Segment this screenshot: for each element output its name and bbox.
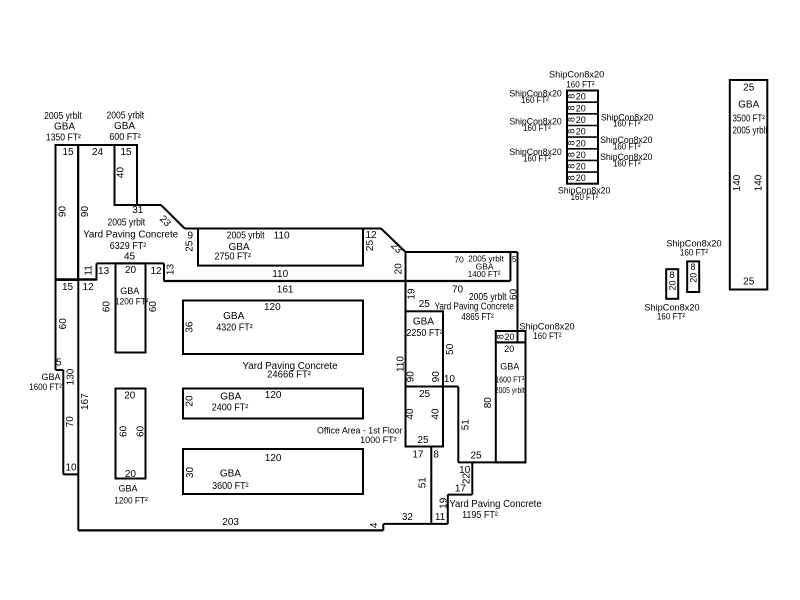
yard 6329 bottom line y263.4 <box>97 262 165 264</box>
vertical x458.3 (51) <box>457 387 459 463</box>
svg-text:1200 FT²: 1200 FT² <box>115 296 149 306</box>
svg-text:19: 19 <box>406 288 417 300</box>
vertical container 1 <box>666 269 678 299</box>
svg-text:110: 110 <box>274 231 290 242</box>
svg-text:4865 FT²: 4865 FT² <box>461 311 493 322</box>
svg-text:80: 80 <box>483 397 494 409</box>
svg-text:31: 31 <box>132 205 144 216</box>
big yard label <box>242 361 338 381</box>
big yard bottom line y530.4 <box>78 529 383 531</box>
building GBA 2250 outline <box>406 311 444 446</box>
ShipCon stack labels right <box>600 112 653 168</box>
svg-text:25: 25 <box>184 240 195 252</box>
ShipCon label mid right <box>519 321 574 341</box>
svg-text:30: 30 <box>185 467 196 479</box>
svg-text:160 FT²: 160 FT² <box>613 141 641 152</box>
svg-text:20: 20 <box>185 395 196 407</box>
svg-text:90: 90 <box>406 371 417 383</box>
svg-text:11: 11 <box>435 512 446 523</box>
building GBA 4320 outline <box>183 301 363 355</box>
svg-text:20: 20 <box>576 127 586 137</box>
svg-text:203: 203 <box>222 517 239 528</box>
svg-text:17: 17 <box>412 450 424 461</box>
building GBA 1400 labels <box>454 253 517 279</box>
svg-text:GBA: GBA <box>738 99 759 110</box>
svg-text:2400 FT²: 2400 FT² <box>212 402 248 414</box>
vertical 11 at x96.5 <box>96 263 98 280</box>
line y494.6 (17) <box>448 494 473 496</box>
line y523.9 (32,11) <box>383 523 448 525</box>
svg-text:15: 15 <box>62 282 74 293</box>
svg-text:2750 FT²: 2750 FT² <box>214 251 250 263</box>
svg-text:19: 19 <box>439 497 450 509</box>
svg-text:GBA: GBA <box>220 468 241 479</box>
office divider y386.5 with jog to x458.3 <box>406 386 459 388</box>
building GBA 2400 outline <box>183 389 363 419</box>
svg-text:32: 32 <box>402 512 414 523</box>
building GBA 1600 right labels <box>483 344 525 408</box>
building GBA 1600 left labels <box>29 318 77 474</box>
yard top edge y228.5 <box>185 228 381 230</box>
svg-text:25: 25 <box>419 389 431 400</box>
svg-text:60: 60 <box>135 425 146 437</box>
svg-text:51: 51 <box>417 477 428 489</box>
svg-text:15: 15 <box>120 147 132 158</box>
building GBA 2250 labels <box>406 299 456 382</box>
svg-text:140: 140 <box>754 174 765 191</box>
svg-text:2005 yrblt: 2005 yrblt <box>106 110 144 121</box>
vertical x431.3 (51) <box>430 447 432 524</box>
vertical container 2 <box>687 261 699 292</box>
svg-text:160 FT²: 160 FT² <box>523 153 551 164</box>
svg-text:36: 36 <box>184 321 195 333</box>
svg-text:9: 9 <box>188 231 194 242</box>
vertical 13 at x164 <box>163 263 165 281</box>
building GBA 1200 upper labels <box>102 286 159 312</box>
svg-text:90: 90 <box>80 206 91 218</box>
svg-text:1195 FT²: 1195 FT² <box>462 510 498 522</box>
building GBA 1600 right outline <box>496 342 526 462</box>
svg-text:51: 51 <box>460 419 471 431</box>
svg-text:25: 25 <box>417 435 429 446</box>
svg-text:2005 yrblt: 2005 yrblt <box>227 230 265 241</box>
office labels <box>317 374 455 446</box>
svg-text:GBA: GBA <box>500 361 519 371</box>
svg-text:25: 25 <box>365 240 376 252</box>
ShipCon stack label top <box>549 69 604 89</box>
svg-text:25: 25 <box>470 451 482 462</box>
svg-text:2250 FT²: 2250 FT² <box>406 327 442 339</box>
ShipCon stack outline <box>567 91 598 184</box>
label 167 big yard left <box>80 393 91 410</box>
svg-text:8: 8 <box>433 450 439 461</box>
yard 6329 top boundary <box>56 144 138 146</box>
yard 4865 labels <box>434 284 519 322</box>
building GBA 3500 outline <box>730 80 768 290</box>
svg-text:2005 yrblt: 2005 yrblt <box>107 217 145 228</box>
svg-text:2005 yrblt: 2005 yrblt <box>44 111 82 122</box>
svg-text:8: 8 <box>669 270 674 280</box>
svg-text:Office Area - 1st Floor: Office Area - 1st Floor <box>317 425 403 435</box>
svg-text:GBA: GBA <box>413 317 434 328</box>
ShipCon stack labels left <box>509 88 561 163</box>
shipping container on 1600 <box>495 331 525 342</box>
svg-text:120: 120 <box>265 390 282 401</box>
svg-text:GBA: GBA <box>118 484 137 494</box>
svg-text:22: 22 <box>462 473 473 485</box>
svg-text:Yard Paving Concrete: Yard Paving Concrete <box>434 301 513 312</box>
vertical x447.8 (19) <box>447 495 449 524</box>
svg-text:25: 25 <box>743 276 755 287</box>
jog x383.3 (4) <box>382 524 384 531</box>
svg-text:1600 FT²: 1600 FT² <box>495 375 525 385</box>
svg-text:8: 8 <box>690 262 695 272</box>
svg-text:2005 yrblt: 2005 yrblt <box>495 385 526 395</box>
svg-text:20: 20 <box>125 265 137 276</box>
svg-text:70: 70 <box>452 284 464 295</box>
building GBA 3600 labels <box>185 453 282 492</box>
main boundary x405.5 <box>405 252 407 447</box>
yard 6329 labels <box>83 205 179 263</box>
svg-text:160 FT²: 160 FT² <box>533 330 561 341</box>
boundary x517.5 (60) <box>517 252 519 342</box>
svg-text:13: 13 <box>98 266 110 277</box>
svg-text:1200 FT²: 1200 FT² <box>114 495 148 505</box>
svg-text:160 FT²: 160 FT² <box>613 158 641 169</box>
svg-text:20: 20 <box>688 273 698 283</box>
svg-text:24666 FT²: 24666 FT² <box>267 369 312 380</box>
building GBA 3500 labels <box>732 83 768 288</box>
svg-text:20: 20 <box>124 391 136 402</box>
svg-text:161: 161 <box>277 285 294 296</box>
svg-text:140: 140 <box>732 174 743 191</box>
svg-text:60: 60 <box>102 301 113 313</box>
svg-text:11: 11 <box>84 265 95 276</box>
svg-text:20: 20 <box>667 280 677 290</box>
svg-text:20: 20 <box>576 150 586 160</box>
svg-text:600 FT²: 600 FT² <box>109 132 140 144</box>
svg-text:20: 20 <box>576 115 586 125</box>
svg-text:160 FT²: 160 FT² <box>657 311 685 322</box>
building GBA 3600 outline <box>183 449 363 494</box>
svg-text:40: 40 <box>115 167 126 179</box>
svg-text:20: 20 <box>504 332 514 342</box>
svg-text:3500 FT²: 3500 FT² <box>732 112 764 123</box>
svg-text:12: 12 <box>83 282 95 293</box>
svg-text:40: 40 <box>405 408 416 420</box>
svg-text:5: 5 <box>512 254 517 264</box>
svg-text:1000 FT²: 1000 FT² <box>360 435 397 445</box>
building GBA 2400 labels <box>185 390 282 414</box>
svg-text:160 FT²: 160 FT² <box>521 95 549 106</box>
svg-text:20: 20 <box>504 344 514 354</box>
building GBA 2750 outline <box>198 229 363 266</box>
svg-text:12: 12 <box>150 266 162 277</box>
svg-text:20: 20 <box>576 103 586 113</box>
svg-text:70: 70 <box>65 416 76 428</box>
building GBA 1600 left outline <box>56 280 79 474</box>
ShipCon stack cell labels <box>567 92 586 184</box>
svg-text:3600 FT²: 3600 FT² <box>212 481 248 493</box>
yard 6329 left boundary x78 <box>77 145 79 531</box>
diagonal 23 right <box>381 229 406 253</box>
building A dims <box>58 147 92 217</box>
building GBA 4320 labels <box>184 302 281 334</box>
building B dims <box>92 147 132 178</box>
building GBA 2750 labels <box>184 230 377 280</box>
svg-text:4: 4 <box>369 522 380 528</box>
svg-text:160 FT²: 160 FT² <box>566 79 594 90</box>
line y462.4 <box>458 461 525 463</box>
svg-text:130: 130 <box>65 368 76 385</box>
svg-text:60: 60 <box>148 301 159 313</box>
svg-text:GBA: GBA <box>120 286 139 296</box>
diagonal 23 upper <box>161 205 185 229</box>
svg-text:120: 120 <box>265 453 282 464</box>
svg-text:60: 60 <box>508 288 519 300</box>
thick line y279.5 under building A <box>56 278 97 281</box>
cell dims under yard 6329 <box>62 264 176 294</box>
svg-text:90: 90 <box>58 206 69 218</box>
svg-text:1600 FT²: 1600 FT² <box>29 381 62 392</box>
svg-text:GBA: GBA <box>223 311 244 322</box>
svg-text:GBA: GBA <box>54 122 75 133</box>
svg-text:60: 60 <box>119 425 130 437</box>
svg-text:90: 90 <box>431 371 442 383</box>
svg-text:10: 10 <box>65 463 77 474</box>
svg-text:160 FT²: 160 FT² <box>523 123 551 134</box>
svg-text:20: 20 <box>576 162 586 172</box>
svg-text:20: 20 <box>576 173 586 183</box>
svg-text:Yard Paving Concrete: Yard Paving Concrete <box>83 230 179 241</box>
svg-text:160 FT²: 160 FT² <box>613 118 641 129</box>
svg-text:2005 yrblt: 2005 yrblt <box>732 125 768 136</box>
svg-text:GBA: GBA <box>114 121 135 132</box>
building B GBA 600 outline <box>115 145 138 205</box>
svg-text:Yard Paving Concrete: Yard Paving Concrete <box>449 499 541 510</box>
building A GBA 1350 outline <box>56 145 79 280</box>
vertical containers labels <box>644 238 721 321</box>
line 161 y281 <box>164 280 511 282</box>
svg-text:120: 120 <box>264 302 281 313</box>
svg-text:12: 12 <box>365 230 377 241</box>
svg-text:160 FT²: 160 FT² <box>571 192 599 203</box>
ShipCon stack label bottom <box>558 186 610 203</box>
yard 1195 labels <box>449 499 541 521</box>
svg-text:20: 20 <box>394 263 405 275</box>
svg-text:50: 50 <box>445 343 456 355</box>
building A header text <box>44 111 82 143</box>
svg-text:160 FT²: 160 FT² <box>680 247 708 258</box>
building GBA 1200 upper outline <box>116 263 146 352</box>
svg-text:6329 FT²: 6329 FT² <box>110 241 146 253</box>
svg-text:10: 10 <box>444 374 456 385</box>
svg-text:15: 15 <box>62 147 74 158</box>
svg-text:45: 45 <box>124 252 136 263</box>
svg-text:24: 24 <box>92 147 104 158</box>
svg-text:GBA: GBA <box>220 391 241 402</box>
svg-text:17: 17 <box>455 483 467 494</box>
svg-text:25: 25 <box>419 299 431 310</box>
building GBA 1400 top edge y252 <box>406 251 518 253</box>
dims 17 8 under 2250 <box>412 450 439 461</box>
svg-text:167: 167 <box>80 393 91 410</box>
yard 6329 bottom edge of bldg B + 31 segment <box>115 204 162 206</box>
svg-text:4320 FT²: 4320 FT² <box>216 322 252 334</box>
svg-text:13: 13 <box>165 264 176 276</box>
building GBA 1200 lower labels <box>114 391 148 506</box>
svg-text:1350 FT²: 1350 FT² <box>46 132 81 143</box>
svg-text:5: 5 <box>56 358 62 369</box>
svg-text:60: 60 <box>58 318 69 330</box>
svg-text:70: 70 <box>454 254 464 264</box>
svg-text:1400 FT²: 1400 FT² <box>468 269 501 279</box>
building B header text <box>106 110 144 143</box>
svg-text:110: 110 <box>272 269 288 280</box>
building GBA 1400 right edge <box>509 252 511 281</box>
svg-text:25: 25 <box>743 83 755 94</box>
svg-text:40: 40 <box>431 408 442 420</box>
vertical x472.3 (22) <box>471 462 473 494</box>
svg-text:20: 20 <box>576 138 586 148</box>
building GBA 1200 lower outline <box>116 389 146 479</box>
svg-text:20: 20 <box>125 469 137 480</box>
svg-text:20: 20 <box>576 92 586 102</box>
